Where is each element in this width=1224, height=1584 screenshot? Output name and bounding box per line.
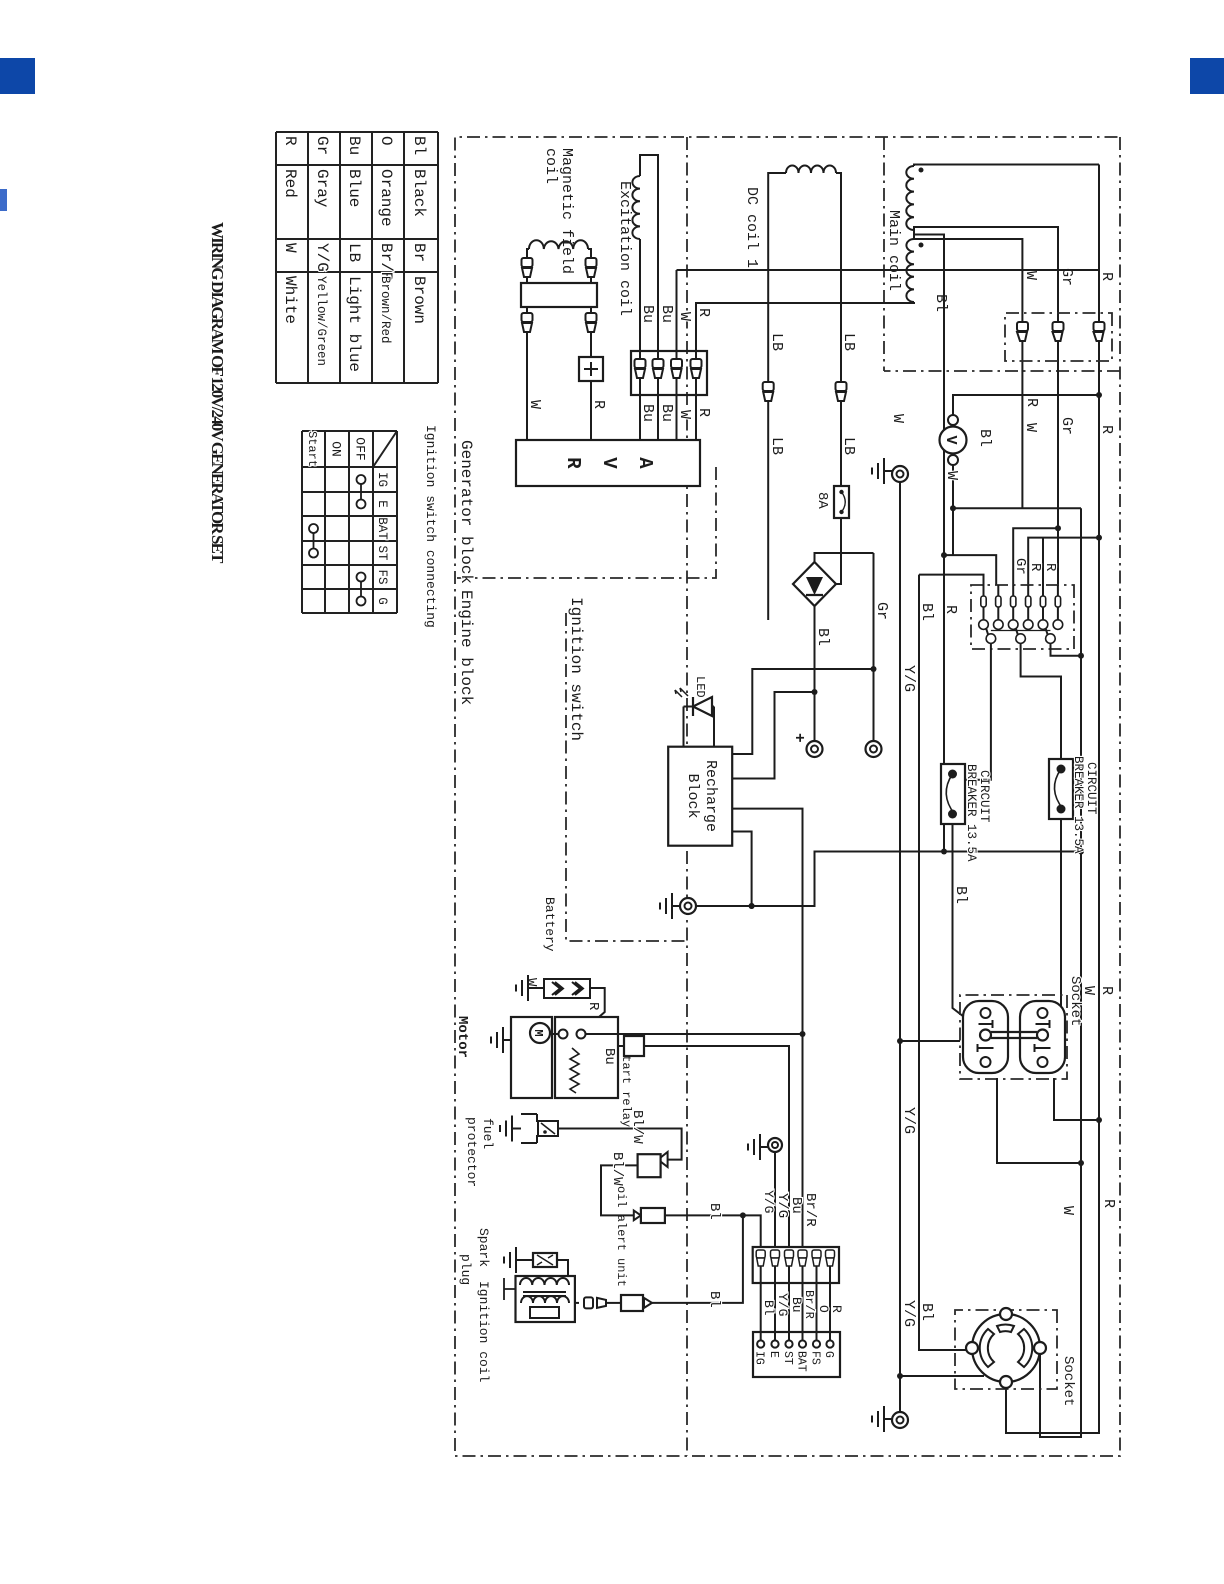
svg-text:Bl: Bl: [814, 628, 831, 646]
voltmeter wire left to R trunk: [953, 395, 1099, 415]
svg-text:oil alert unit: oil alert unit: [614, 1186, 628, 1287]
blue header bar right: [1190, 58, 1224, 94]
svg-text:ON: ON: [329, 441, 344, 457]
svg-text:Y/G: Y/G: [761, 1190, 776, 1213]
engine block divider dash-dot: [455, 467, 716, 578]
svg-text:WIRING DIAGRAM OF 120V/240V GE: WIRING DIAGRAM OF 120V/240V GENERATOR SE…: [208, 222, 227, 564]
svg-text:IG: IG: [375, 472, 389, 487]
ignition connector pin FS: [816, 1283, 818, 1341]
ignition coil output wire: [575, 1302, 579, 1304]
svg-text:Bu: Bu: [639, 305, 656, 323]
bullet connector on Gr leg: [1053, 322, 1064, 341]
DC coil top lead LB wire with 8A fuse: [836, 173, 841, 486]
oil alert unit box: [638, 1154, 661, 1177]
panel connector pin row 166.1: [1057, 585, 1059, 620]
output bullet connector: [584, 1297, 606, 1308]
magfield upper wire R: [588, 249, 591, 440]
upper outlet body: [1020, 1001, 1065, 1073]
panel connector dash-dot box: [971, 585, 1074, 649]
round socket body: [972, 1314, 1040, 1382]
svg-text:Bu: Bu: [345, 136, 363, 155]
4-pin connector box: [631, 351, 707, 395]
circuit breaker 1 box: [941, 764, 965, 824]
harness bullet row 449: [771, 1250, 780, 1266]
svg-text:Bu: Bu: [658, 305, 675, 323]
brush block rectangle: [521, 283, 597, 307]
svg-text:R: R: [1023, 398, 1040, 407]
R pins riser from R trunk: [1096, 535, 1102, 541]
lower outlet pins: [981, 1008, 991, 1018]
svg-text:G: G: [375, 597, 389, 605]
svg-text:Bl: Bl: [706, 1203, 722, 1220]
fuel protector ground: [500, 1116, 521, 1142]
svg-text:Block: Block: [684, 773, 701, 818]
svg-text:coil: coil: [542, 148, 559, 184]
svg-text:Bl: Bl: [410, 136, 428, 155]
bullet connector on R trunk: [1094, 322, 1105, 341]
voltmeter circle V: [940, 427, 967, 454]
svg-text:OFF: OFF: [353, 437, 368, 460]
fuel protector bracket: [521, 1114, 537, 1143]
svg-text:BREAKER 13.5A: BREAKER 13.5A: [964, 764, 978, 862]
battery R wire to relay: [584, 988, 605, 1030]
fuel protector switch box: [538, 1121, 558, 1136]
main coil interconnect wire: [913, 230, 915, 239]
svg-text:protector: protector: [464, 1117, 479, 1187]
wire main coil 4th leg to AVR R input: [696, 302, 914, 440]
svg-text:Bl/W: Bl/W: [629, 1110, 645, 1144]
panel connector moving contact row 240.5: [986, 628, 988, 635]
connector pin bullet row 584: [635, 359, 646, 378]
relay to motor wire: [550, 1033, 559, 1035]
wire bridge left corner to Gr line: [815, 553, 874, 562]
svg-text:Gray: Gray: [313, 169, 331, 208]
wire upper outlet to R trunk: [1054, 1078, 1099, 1120]
oil suppressor box: [641, 1208, 665, 1223]
svg-text:W: W: [526, 400, 543, 409]
motor box: [511, 1017, 552, 1098]
harness bullet row 435: [785, 1250, 794, 1266]
LED arrows: [675, 688, 688, 697]
spark plug symbol: [533, 1253, 557, 1267]
svg-text:O: O: [816, 1305, 831, 1313]
wire output row 203 to breaker2: [1021, 643, 1061, 759]
generator stator dash-dot box bottom edge: [883, 137, 885, 371]
svg-text:R: R: [1098, 986, 1115, 995]
svg-text:Brown/Red: Brown/Red: [378, 276, 392, 344]
generator stator dash-dot box right edge: [884, 370, 1120, 372]
svg-text:Red: Red: [281, 169, 299, 198]
svg-text:R: R: [695, 408, 712, 417]
Bl long wire row: [919, 575, 966, 1350]
color legend table: [276, 132, 438, 383]
DC coil 1: [786, 165, 836, 173]
svg-text:R: R: [562, 457, 584, 469]
main coil winding 1: [906, 166, 914, 230]
svg-text:plug: plug: [458, 1254, 473, 1285]
svg-text:Br: Br: [410, 243, 428, 262]
outer dashed border: [455, 137, 1120, 1456]
bridge rectifier diamond: [793, 562, 836, 606]
svg-text:Bl: Bl: [932, 294, 949, 312]
svg-text:Gr: Gr: [1058, 417, 1075, 435]
wire IG row: [743, 1215, 761, 1247]
wire R leg from main coil to R trunk: [914, 165, 1099, 167]
svg-text:LB: LB: [840, 333, 857, 351]
main coil winding 2: [906, 239, 914, 302]
Y/G left ground symbol: [872, 458, 892, 484]
ignition connector pin IG: [760, 1283, 762, 1341]
connector pin bullet row 566: [653, 359, 664, 378]
svg-text:Generator block: Generator block: [457, 440, 475, 584]
Gr wire to battery charge terminal: [873, 553, 875, 741]
round socket pin right: [1000, 1376, 1012, 1388]
battery symbol: [544, 979, 590, 998]
round socket pin bottom: [966, 1342, 978, 1354]
wire Bl center tap to pin2: [914, 235, 996, 586]
magfield bullet lower1: [522, 258, 533, 277]
wire BrR from recharge: [732, 809, 802, 1247]
svg-text:ST: ST: [375, 545, 389, 561]
magnetic field coil: [529, 240, 588, 249]
svg-text:Gr: Gr: [313, 136, 331, 155]
wire bridge right corner Bl to + terminal: [814, 606, 816, 741]
svg-text:R: R: [695, 308, 712, 317]
svg-text:Ignition switch: Ignition switch: [567, 597, 585, 741]
excitation coil: [632, 176, 640, 239]
round socket dash-dot box: [955, 1310, 1057, 1389]
svg-text:BAT: BAT: [795, 1351, 808, 1372]
E ground Y/G wire: [774, 1152, 776, 1247]
panel connector moving contact row 181: [1046, 628, 1048, 635]
svg-text:Socket: Socket: [1067, 976, 1083, 1026]
svg-text:R: R: [585, 1002, 601, 1011]
svg-text:CIRCUIT: CIRCUIT: [977, 770, 991, 823]
harness bullet row 421.5: [798, 1250, 807, 1266]
svg-text:Magnetic field: Magnetic field: [558, 148, 575, 274]
OFF row FS-G link: [357, 573, 366, 582]
ignition coil core: [523, 1292, 566, 1296]
battery ground: [516, 975, 540, 1001]
ignition connector pin ST: [788, 1283, 790, 1341]
svg-text:Engine block: Engine block: [457, 590, 475, 705]
svg-text:Y/G: Y/G: [313, 243, 331, 272]
bullet connector on DC bottom lead: [763, 382, 774, 401]
DC coil bottom lead LB wire: [768, 173, 786, 620]
svg-text:Bu: Bu: [658, 404, 675, 422]
svg-text:W: W: [1059, 1206, 1076, 1215]
E ground symbol: [748, 1134, 768, 1160]
W trunk wire: [1040, 508, 1081, 1437]
svg-text:Y/G: Y/G: [775, 1293, 790, 1316]
ignition switch table: [302, 431, 397, 613]
plus-in-box symbol: [579, 357, 603, 381]
wire R trunk to DC coil and W row vertical: [677, 269, 1100, 271]
svg-text:O: O: [377, 136, 395, 146]
R trunk wire: [1006, 165, 1099, 1434]
svg-text:IG: IG: [753, 1351, 766, 1365]
motor ground: [507, 1039, 511, 1041]
wire output row 233 to breaker1: [965, 643, 991, 779]
svg-text:FS: FS: [809, 1351, 822, 1365]
spark plug to coil wire: [557, 1260, 568, 1277]
round socket pin left: [1000, 1308, 1012, 1320]
voltmeter terminal right: [948, 455, 958, 465]
AVR box: [516, 440, 700, 486]
svg-text:R: R: [1100, 1199, 1117, 1208]
relay contact 1: [577, 1030, 586, 1039]
wire W row to AVR: [676, 270, 678, 440]
blue tab left edge: [0, 189, 7, 211]
svg-text:Battery: Battery: [542, 897, 557, 952]
start relay box: [555, 1017, 618, 1098]
svg-text:Light blue: Light blue: [345, 276, 363, 372]
upper outlet pins: [1038, 1008, 1048, 1018]
svg-text:BAT: BAT: [375, 517, 389, 540]
svg-text:W: W: [1022, 271, 1039, 280]
output arrow triangle: [644, 1298, 652, 1308]
oil suppressor triangle: [634, 1211, 641, 1221]
svg-text:W: W: [523, 978, 539, 987]
svg-text:Bu: Bu: [601, 1048, 617, 1065]
LED diode: [713, 707, 715, 747]
engine harness connector box: [753, 1247, 839, 1283]
svg-text:W: W: [943, 471, 960, 480]
relay coil: [570, 1048, 579, 1093]
magfield bullet upper1: [586, 258, 597, 277]
svg-text:Motor: Motor: [454, 1016, 470, 1058]
svg-text:W: W: [676, 410, 693, 419]
Y/G ground bus wire: [899, 474, 901, 1412]
svg-text:R: R: [1098, 272, 1115, 281]
svg-text:Yellow/Green: Yellow/Green: [314, 276, 328, 366]
svg-text:LB: LB: [768, 333, 785, 351]
magfield lower wire W: [527, 249, 529, 440]
svg-text:W: W: [676, 312, 693, 321]
svg-text:LED: LED: [693, 676, 707, 698]
svg-text:Black: Black: [410, 169, 428, 217]
ignition connector pin G: [829, 1283, 831, 1341]
oil alert to suppressor wire: [601, 1165, 638, 1215]
svg-text:R: R: [1027, 563, 1043, 572]
wire neutral from recharge: [732, 832, 751, 907]
excitation coil Bu wire 1: [639, 239, 641, 440]
wire Gr leg from main coil to pin6: [914, 227, 1058, 585]
panel connector pin row 240.5: [983, 585, 985, 620]
neutral bond bar between outlets: [991, 1032, 1037, 1038]
generator/engine divider dash-dot: [686, 137, 688, 1456]
ignition coil secondary winding: [521, 1296, 569, 1303]
charge ground symbol: [660, 893, 680, 919]
svg-text:+: +: [790, 733, 808, 743]
Gr drop to pin3 row: [1055, 525, 1061, 531]
svg-text:Socket: Socket: [1060, 1356, 1076, 1406]
recharge block box: [668, 747, 732, 846]
excitation coil return loop: [640, 155, 658, 440]
round socket slots: [1018, 1329, 1032, 1367]
panel connector pin row 181: [1042, 585, 1044, 620]
generator output connector dash-dot box: [1005, 313, 1112, 361]
ignition switch connector box: [753, 1332, 840, 1377]
svg-text:Ignition switch connecting: Ignition switch connecting: [423, 425, 438, 628]
svg-text:CIRCUIT: CIRCUIT: [1084, 762, 1098, 815]
svg-text:Start: Start: [305, 431, 319, 467]
svg-text:Blue: Blue: [345, 169, 363, 207]
output suppressor box: [621, 1295, 643, 1311]
BrR wire to relay contact: [586, 1033, 803, 1035]
svg-text:LB: LB: [345, 243, 363, 262]
charge terminal circle Gr: [866, 741, 882, 757]
svg-text:R: R: [1042, 563, 1058, 572]
svg-text:A: A: [634, 457, 656, 469]
panel connector pin row 195.8: [1027, 585, 1029, 620]
connector pin bullet row 528: [691, 359, 702, 378]
svg-text:BREAKER 13.5A: BREAKER 13.5A: [1071, 756, 1085, 854]
svg-text:Excitation coil: Excitation coil: [616, 181, 633, 316]
wire W leg from main coil to W trunk riser: [914, 239, 1081, 508]
ignition coil condenser box: [530, 1307, 559, 1318]
svg-text:R: R: [942, 605, 959, 614]
wire junction to ignition coil: [652, 1215, 743, 1303]
wire breaker2 out: [1046, 819, 1061, 1030]
panel connector pin row 225.7: [997, 585, 999, 620]
ignition coil ground tick: [504, 1278, 516, 1300]
motor circle M: [530, 1023, 550, 1043]
svg-text:Bl: Bl: [706, 1291, 722, 1308]
svg-text:E: E: [375, 500, 389, 508]
svg-text:DC coil 1: DC coil 1: [743, 187, 760, 268]
svg-text:V: V: [942, 435, 959, 444]
oil alert triangle: [658, 1152, 668, 1167]
svg-text:Recharge: Recharge: [702, 760, 719, 832]
wire output row 174 to W trunk: [1051, 643, 1082, 655]
OFF row IG-E link: [357, 475, 366, 484]
relay contact 2: [559, 1030, 568, 1039]
svg-text:ST: ST: [781, 1351, 794, 1365]
panel connector moving contact row 210.8: [1016, 628, 1018, 635]
svg-text:Bu: Bu: [789, 1297, 804, 1313]
voltmeter wire right: [952, 465, 954, 555]
ignition coil primary winding: [520, 1278, 569, 1285]
ignition coil box: [516, 1276, 575, 1322]
voltmeter terminal left: [948, 415, 958, 425]
svg-text:Bl: Bl: [952, 886, 969, 904]
svg-text:Bl: Bl: [761, 1300, 776, 1316]
svg-text:Gr: Gr: [1012, 558, 1028, 575]
duplex socket dash-dot box: [960, 995, 1067, 1079]
svg-text:Main coil: Main coil: [885, 210, 902, 291]
svg-text:G: G: [822, 1351, 835, 1358]
svg-text:Bl: Bl: [918, 603, 935, 621]
svg-text:Bu: Bu: [639, 404, 656, 422]
svg-text:Ignition coil: Ignition coil: [476, 1281, 491, 1383]
bullet connector on DC top lead: [836, 382, 847, 401]
8A fuse box: [834, 486, 849, 518]
ignition connector pin BAT: [802, 1283, 804, 1341]
svg-text:Orange: Orange: [377, 169, 395, 227]
Y/G right terminal circle: [892, 1412, 908, 1428]
bridge diode: [806, 577, 823, 595]
svg-text:Y/G: Y/G: [900, 1107, 917, 1134]
svg-text:LB: LB: [768, 437, 785, 455]
wire Bl branch to recharge: [732, 692, 814, 779]
Y/G left terminal circle: [892, 466, 908, 482]
svg-text:Y/G: Y/G: [900, 665, 917, 692]
charge terminal circle +: [807, 741, 823, 757]
E ground terminal circle: [768, 1138, 782, 1152]
svg-text:Gr: Gr: [873, 602, 890, 620]
charge ground terminal circle: [680, 898, 696, 914]
wire Gr branch to recharge: [732, 669, 873, 754]
svg-text:FS: FS: [375, 569, 389, 584]
svg-text:White: White: [281, 276, 299, 324]
panel connector link bar: [991, 630, 1051, 632]
spark plug ground: [518, 1259, 533, 1261]
neutral riser from W trunk to charge ground: [1078, 849, 1084, 855]
svg-text:R: R: [281, 136, 299, 146]
svg-text:W: W: [281, 243, 299, 253]
wire lower outlet to W trunk: [997, 1078, 1081, 1163]
wire socket ground pin to YG: [900, 1040, 960, 1042]
svg-text:M: M: [531, 1029, 545, 1036]
wire breaker1 out: [953, 824, 982, 1030]
YG stub to round socket: [900, 1375, 984, 1377]
panel connector pin row 210.8: [1012, 585, 1014, 620]
svg-text:Bl: Bl: [918, 1303, 935, 1321]
svg-text:fuel: fuel: [480, 1118, 495, 1149]
bullet connector on W leg: [1017, 322, 1028, 341]
svg-text:8A: 8A: [814, 492, 830, 509]
svg-text:R: R: [1098, 425, 1115, 434]
svg-text:R: R: [590, 400, 607, 409]
Bl wire from pin1 down to Bl row: [919, 575, 984, 585]
svg-text:Y/G: Y/G: [900, 1300, 917, 1327]
harness bullet row 394: [826, 1250, 835, 1266]
svg-text:Bl: Bl: [976, 429, 993, 447]
fuel protector Bl/W wire: [558, 1129, 682, 1160]
wire suppressor to IG junction: [665, 1214, 743, 1216]
svg-text:LB: LB: [840, 437, 857, 455]
lower outlet body: [963, 1001, 1008, 1073]
svg-text:Bl/W: Bl/W: [609, 1152, 625, 1186]
svg-text:V: V: [598, 457, 620, 469]
ignition connector pin E: [774, 1283, 776, 1341]
Start row BAT-ST link: [309, 524, 318, 533]
Y/G right ground symbol: [872, 1406, 892, 1432]
main coil polarity dot 2: [919, 243, 924, 248]
svg-text:W: W: [1022, 423, 1039, 432]
harness bullet row 463.3: [756, 1250, 765, 1266]
circuit breaker 2 box: [1049, 759, 1073, 819]
ignition switch region dash-dot: [566, 613, 686, 941]
svg-text:Spark: Spark: [476, 1228, 491, 1267]
svg-text:Brown: Brown: [410, 276, 428, 324]
round socket pin top: [1034, 1342, 1046, 1354]
magfield bullet upper2: [586, 313, 597, 332]
Bu wire relay to connector: [618, 1045, 624, 1047]
svg-text:W: W: [889, 414, 906, 423]
connector pin bullet row 547.5: [671, 359, 682, 378]
svg-text:E: E: [767, 1351, 780, 1358]
main coil polarity dot 1: [919, 168, 924, 173]
blue header bar left: [0, 58, 35, 94]
magfield bullet lower2: [522, 313, 533, 332]
Bl center tap row extension to neutral riser: [943, 555, 945, 851]
harness bullet row 407.5: [812, 1250, 821, 1266]
